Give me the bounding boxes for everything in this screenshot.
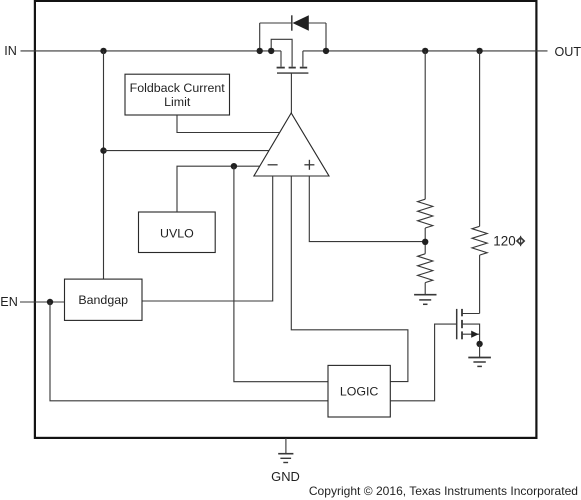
svg-text:EN: EN [0, 295, 18, 309]
label 120 ohm [493, 234, 524, 249]
gate bar [456, 309, 458, 339]
svg-text:UVLO: UVLO [160, 227, 194, 241]
node junction dot at NMOS source [476, 341, 482, 347]
plus input symbol [304, 164, 314, 166]
body route [271, 39, 292, 66]
body lead [462, 324, 480, 344]
transistor Q1 PMOS pass element [271, 39, 308, 113]
wire IN rail left segment [21, 50, 282, 52]
resistor R1 feedback top [418, 51, 433, 254]
box UVLO [139, 212, 216, 253]
ground symbol GND pin [278, 454, 293, 463]
drain stub [280, 51, 282, 67]
resistor R3 120 ohm [472, 51, 487, 314]
wire IN branch vertical to Bandgap [103, 51, 105, 279]
wire from IN branch to error amp inverting side [104, 150, 270, 152]
wire UVLO to error amp [177, 166, 260, 212]
box LOGIC [328, 365, 390, 417]
channel segments [277, 67, 285, 69]
wire OUT rail right segment [303, 50, 548, 52]
wire diode left leg [259, 23, 261, 51]
wire from UVLO node down to LOGIC [234, 166, 328, 382]
svg-text:120: 120 [493, 234, 515, 249]
GND pin stub [285, 438, 287, 454]
wire inverting input from Bandgap [142, 176, 273, 301]
IC boundary box [35, 1, 537, 438]
transistor Q2 NMOS pull-down [390, 309, 479, 401]
ground below R2 [414, 295, 436, 305]
node feedback junction dot [422, 239, 428, 245]
gate plate [277, 72, 308, 74]
svg-text:Bandgap: Bandgap [78, 293, 128, 307]
svg-text:Copyright © 2016, Texas Instru: Copyright © 2016, Texas Instruments Inco… [309, 484, 578, 498]
gate lead [290, 73, 292, 113]
channel segments [461, 309, 463, 316]
svg-text:IN: IN [4, 44, 17, 58]
source stub [302, 51, 304, 67]
wire error amp center to LOGIC right pin [291, 176, 408, 382]
gate lead [390, 324, 456, 401]
node junction dots on IN/OUT rail [100, 48, 483, 54]
svg-text:Limit: Limit [164, 95, 191, 109]
wire Foldback output to error amp [177, 115, 280, 133]
wire EN lead [20, 301, 65, 303]
op-amp U1 error amplifier [254, 113, 329, 176]
svg-text:GND: GND [271, 469, 300, 484]
node junction dot on EN wire [47, 299, 53, 305]
node junction dot on IN branch [100, 147, 106, 153]
diode D1 (reverse/body diode) [260, 15, 326, 31]
svg-text:OUT: OUT [555, 45, 581, 59]
drain lead [462, 313, 480, 315]
svg-text:LOGIC: LOGIC [340, 385, 379, 399]
wire non-inverting input to feedback node [309, 176, 425, 242]
box Foldback Current Limit [125, 74, 230, 115]
svg-text:Foldback Current: Foldback Current [130, 81, 226, 95]
wire diode right leg [325, 23, 327, 51]
resistor R2 feedback bottom [418, 254, 433, 295]
box Bandgap [65, 279, 143, 320]
ground below Q2 [468, 344, 491, 367]
source lead with arrow [462, 333, 480, 335]
wire EN to LOGIC [50, 302, 328, 401]
node junction dot on UVLO wire [231, 163, 237, 169]
minus input symbol [268, 164, 278, 166]
